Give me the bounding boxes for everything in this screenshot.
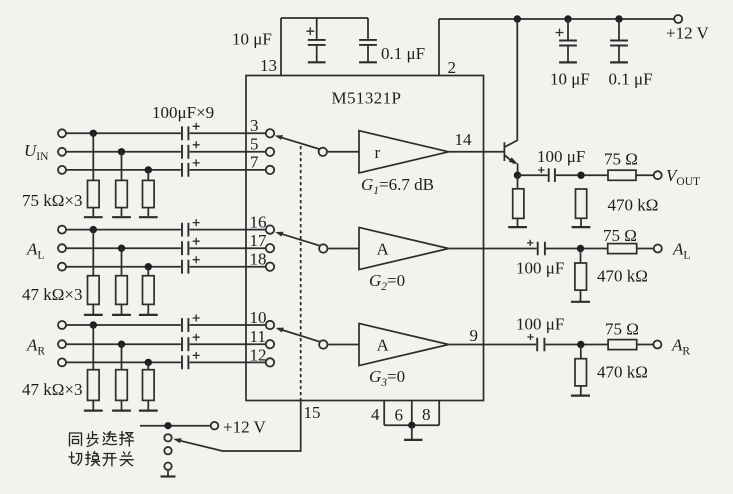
svg-text:A: A	[377, 240, 390, 259]
label line1 (xuan)	[103, 432, 117, 445]
svg-text:VOUT: VOUT	[666, 166, 700, 188]
svg-text:16: 16	[250, 213, 267, 232]
label line1 (ze)	[120, 432, 134, 447]
node AR row2 junction	[118, 341, 125, 348]
svg-text:100μF×9: 100μF×9	[152, 103, 214, 122]
wire UIN row1	[66, 132, 266, 134]
resistor R3 75k	[139, 170, 158, 217]
capacitor C4 0.1uF (right decoupling)	[610, 19, 628, 62]
op-amp U1a buffer r	[359, 131, 449, 173]
svg-text:10 μF: 10 μF	[232, 30, 272, 49]
resistor R10 emitter load	[508, 175, 527, 227]
svg-text:47 kΩ×3: 47 kΩ×3	[22, 285, 82, 304]
wire C6 to R14	[546, 248, 608, 250]
op-amp U1c A	[359, 323, 449, 365]
switch S1d contact 2	[164, 447, 171, 454]
switch S1a pole	[319, 148, 327, 156]
wire AR row1	[66, 324, 266, 326]
terminal VOUT	[654, 171, 662, 179]
capacitor C1 10uF (left decoupling)	[306, 18, 325, 62]
svg-text:2: 2	[448, 58, 457, 77]
wire pin13 vertical	[280, 18, 282, 76]
label line2 (huan)	[86, 452, 100, 466]
resistor R13 470k	[571, 249, 590, 302]
pin 10 contact	[266, 321, 274, 329]
svg-text:75 Ω: 75 Ω	[603, 226, 637, 245]
wire R16 to AR terminal	[637, 344, 654, 346]
wire AL row1	[66, 229, 266, 231]
node junction R15	[577, 341, 584, 348]
svg-text:13: 13	[260, 56, 277, 75]
terminal +12V bottom	[211, 422, 219, 430]
capacitor C7 100uF output AR	[527, 334, 544, 351]
node UIN row3 junction	[145, 166, 152, 173]
svg-text:M51321P: M51321P	[332, 89, 402, 108]
svg-text:100 μF: 100 μF	[516, 259, 564, 278]
svg-text:+12 V: +12 V	[666, 24, 710, 43]
wire amp3 output to C7	[449, 344, 536, 346]
switch S1d contact 1	[164, 434, 171, 441]
wire AR row3	[66, 361, 266, 363]
resistor R15 470k	[571, 345, 590, 396]
terminal UIN-1	[58, 129, 66, 137]
svg-text:9: 9	[470, 326, 479, 345]
node AL row3 junction	[145, 263, 152, 270]
capacitor C6 100uF output AL	[527, 240, 545, 256]
svg-text:12: 12	[250, 345, 267, 364]
dashed switch gang link	[300, 146, 302, 401]
wire S1b pole to amp2	[328, 248, 360, 250]
wire S1a pole to amp1	[327, 151, 359, 153]
svg-text:100 μF: 100 μF	[516, 315, 564, 334]
terminal +12V top	[674, 15, 682, 23]
arrow to switch S1d	[173, 438, 181, 443]
node AR row1 junction	[90, 321, 97, 328]
pin 3 contact	[266, 129, 274, 137]
node AL row1 junction	[90, 226, 97, 233]
wire UIN row3	[66, 169, 266, 171]
ground pins 4-6-8	[404, 425, 423, 440]
transistor Q1 NPN	[504, 140, 518, 175]
switch S1a arm with arrow	[275, 135, 320, 149]
terminal AL-2	[58, 244, 66, 252]
svg-text:A: A	[377, 336, 390, 355]
wire pin14 to transistor base	[484, 151, 504, 153]
label sync select switch line1 (tong)	[70, 433, 82, 446]
wire pin2 vertical	[438, 19, 440, 76]
terminal AR output	[653, 341, 661, 349]
svg-text:5: 5	[250, 134, 259, 153]
node junction rail/C3	[564, 15, 571, 22]
node junction rail/C4	[615, 15, 622, 22]
node UIN row1 junction	[90, 130, 97, 137]
wire +12V top rail	[439, 18, 674, 20]
svg-text:r: r	[375, 143, 381, 162]
pin 11 contact	[266, 340, 274, 348]
label line2 (guan)	[120, 452, 133, 466]
capacitor C3 10uF (right decoupling)	[556, 19, 577, 62]
resistor R4 47k	[84, 230, 103, 315]
node selector common junction	[164, 422, 171, 429]
svg-text:18: 18	[250, 250, 267, 269]
switch S1b arm with arrow	[275, 232, 320, 246]
svg-text:75 Ω: 75 Ω	[605, 320, 639, 339]
capacitor C10 input	[182, 159, 200, 176]
wire UIN row2	[66, 151, 266, 153]
wire amp1 output to pin14	[449, 151, 484, 153]
capacitor C14 input	[182, 315, 200, 332]
capacitor C15 input	[182, 334, 200, 351]
wire R12 to VOUT terminal	[636, 174, 654, 176]
wire S1c pole to amp3	[328, 344, 360, 346]
node junction R11	[577, 172, 584, 179]
wire AL row3	[66, 266, 266, 268]
resistor R14 75 Ohm	[608, 244, 637, 254]
ground switch S1d	[161, 470, 176, 477]
svg-text:15: 15	[304, 403, 321, 422]
svg-text:8: 8	[422, 405, 431, 424]
wire C7 to R16	[545, 344, 608, 346]
svg-text:+12 V: +12 V	[223, 418, 267, 437]
resistor R8 47k	[112, 344, 131, 410]
wire AL row2	[66, 247, 266, 249]
svg-text:0.1 μF: 0.1 μF	[381, 44, 425, 63]
wire emitter to C5	[518, 174, 548, 176]
pin 12 contact	[266, 358, 274, 366]
pin 16 contact	[266, 225, 274, 233]
wire amp2 output to C6	[449, 248, 537, 250]
resistor R2 75k	[112, 152, 131, 217]
svg-text:4: 4	[371, 405, 380, 424]
switch S1b pole	[319, 244, 327, 252]
terminal AR-1	[58, 321, 66, 329]
svg-text:100 μF: 100 μF	[537, 147, 585, 166]
svg-text:0.1 μF: 0.1 μF	[609, 70, 653, 89]
terminal AR-3	[58, 358, 66, 366]
svg-text:47 kΩ×3: 47 kΩ×3	[22, 380, 82, 399]
svg-text:470 kΩ: 470 kΩ	[597, 363, 648, 382]
wire pin13 top rail	[281, 17, 368, 19]
resistor R12 75 Ohm	[608, 170, 636, 180]
svg-text:7: 7	[250, 152, 259, 171]
capacitor C13 input	[182, 256, 200, 273]
terminal AL output	[654, 245, 662, 253]
pin 5 contact	[266, 148, 274, 156]
svg-text:14: 14	[455, 130, 473, 149]
capacitor C5 100uF output	[538, 167, 555, 182]
svg-text:AR: AR	[26, 336, 45, 358]
wire pin15 to selector switch	[179, 401, 301, 452]
svg-text:G1=6.7 dB: G1=6.7 dB	[361, 175, 434, 197]
svg-text:6: 6	[395, 406, 404, 425]
node UIN row2 junction	[118, 148, 125, 155]
label line2 (kai)	[103, 454, 116, 466]
resistor R5 47k	[112, 248, 131, 315]
node emitter junction	[514, 172, 521, 179]
svg-text:AL: AL	[26, 240, 44, 262]
wire pins 4-6-8 common	[384, 424, 439, 426]
capacitor C9 input	[182, 141, 200, 158]
resistor R9 47k	[139, 362, 158, 410]
svg-text:AR: AR	[671, 336, 690, 358]
svg-text:75 kΩ×3: 75 kΩ×3	[22, 191, 82, 210]
svg-text:G2=0: G2=0	[369, 271, 405, 293]
capacitor C12 input	[182, 238, 200, 255]
pin 17 contact	[266, 244, 274, 252]
terminal AR-2	[58, 340, 66, 348]
label sync select switch line2 (qie)	[69, 452, 82, 465]
switch S1c arm with arrow	[276, 328, 320, 342]
wire pin 6 drop	[411, 401, 413, 426]
wire C5 to R12	[556, 174, 608, 176]
switch S1d contact 3	[164, 463, 171, 470]
resistor R11 470k	[572, 189, 591, 227]
terminal UIN-3	[58, 166, 66, 174]
svg-text:10 μF: 10 μF	[550, 70, 590, 89]
wire +12V selector feed	[140, 425, 211, 427]
capacitor C11 input	[182, 219, 200, 236]
wire collector drop	[516, 19, 518, 141]
node pins 4-6-8 junction	[408, 422, 415, 429]
wire R14 to AL terminal	[637, 248, 654, 250]
capacitor C8 input	[182, 123, 200, 140]
svg-text:470 kΩ: 470 kΩ	[597, 267, 648, 286]
svg-text:UIN: UIN	[24, 141, 49, 163]
svg-text:75 Ω: 75 Ω	[604, 150, 638, 169]
label line1 (bu)	[87, 432, 98, 447]
node junction rail/collector	[514, 15, 521, 22]
node AR row3 junction	[145, 359, 152, 366]
capacitor C2 0.1uF (left decoupling)	[359, 18, 377, 62]
switch S1c pole	[319, 340, 327, 348]
wire pin 8 drop	[438, 401, 440, 426]
svg-text:11: 11	[250, 327, 266, 346]
wire AR row2	[66, 343, 266, 345]
resistor R16 75 Ohm	[608, 340, 637, 350]
pin 7 contact	[266, 166, 274, 174]
terminal AL-1	[58, 226, 66, 234]
terminal AL-3	[58, 263, 66, 271]
svg-text:10: 10	[250, 308, 267, 327]
IC U1 M51321P body	[246, 76, 484, 401]
svg-text:470 kΩ: 470 kΩ	[608, 196, 659, 215]
resistor R7 47k	[84, 325, 103, 411]
svg-text:AL: AL	[672, 240, 690, 262]
svg-text:3: 3	[250, 116, 259, 135]
svg-text:17: 17	[250, 231, 268, 250]
node junction R13	[577, 245, 584, 252]
wire pin 4 drop	[383, 401, 385, 426]
svg-text:G3=0: G3=0	[369, 367, 405, 389]
resistor R1 75k	[84, 133, 103, 217]
terminal UIN-2	[58, 148, 66, 156]
resistor R6 47k	[139, 267, 158, 315]
node AL row2 junction	[118, 245, 125, 252]
pin 18 contact	[266, 263, 274, 271]
op-amp U1b A	[359, 227, 449, 269]
capacitor C16 input	[182, 352, 200, 369]
